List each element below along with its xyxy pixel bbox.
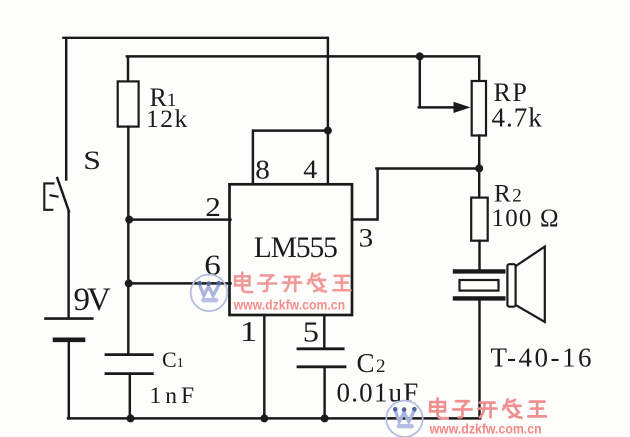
wire node to R2 top bbox=[478, 168, 480, 197]
svg-text:100 Ω: 100 Ω bbox=[492, 205, 560, 232]
node junction RP wiper on rail bbox=[416, 52, 424, 60]
svg-text:3: 3 bbox=[359, 224, 374, 253]
node junction R1/pin2 bbox=[125, 216, 133, 224]
wire R1 bottom down to C1 bbox=[127, 127, 129, 355]
svg-text:C2: C2 bbox=[357, 348, 386, 378]
op-amp U1 LM555 IC body bbox=[230, 184, 353, 315]
capacitor C2 bottom plate bbox=[298, 365, 345, 368]
potentiometer RP wiper wire bbox=[419, 56, 455, 107]
svg-text:S: S bbox=[83, 147, 101, 176]
svg-text:8: 8 bbox=[255, 155, 270, 185]
node junction pin3/RP/R2 bbox=[475, 164, 483, 172]
svg-text:C1: C1 bbox=[162, 347, 184, 372]
potentiometer RP wiper arrow head bbox=[454, 102, 471, 113]
capacitor C1 top plate bbox=[106, 353, 152, 356]
wire pin 6 bbox=[129, 282, 231, 284]
svg-text:1: 1 bbox=[240, 315, 257, 347]
wire RP bottom to node bbox=[478, 136, 480, 169]
potentiometer RP body bbox=[472, 81, 486, 136]
wire battery to bottom rail bbox=[68, 342, 70, 419]
node junction pin4 loop bbox=[324, 127, 332, 135]
wire second rail R1 top to RP top bbox=[127, 56, 479, 81]
capacitor C2 top plate bbox=[298, 347, 343, 350]
node junction pin1 on bottom rail bbox=[260, 414, 268, 422]
svg-text:0.01uF: 0.01uF bbox=[337, 378, 420, 408]
wire top rail from switch to pin4 drop bbox=[64, 38, 328, 180]
svg-text:9V: 9V bbox=[74, 282, 112, 318]
wire pin 2 bbox=[129, 218, 230, 220]
resistor R1 body bbox=[118, 81, 139, 126]
speaker piezo bottom plate bbox=[455, 296, 503, 300]
watermark logo W bottom bbox=[386, 401, 422, 437]
node junction C1 on bottom rail bbox=[127, 414, 135, 422]
watermark text dianzikaifawang middle bbox=[235, 273, 350, 292]
wire pin8-pin4 loop bbox=[253, 131, 328, 185]
wire C1 to bottom rail bbox=[129, 375, 131, 419]
svg-text:www.dzkfw.com.cn: www.dzkfw.com.cn bbox=[429, 422, 542, 437]
svg-text:T-40-16: T-40-16 bbox=[491, 343, 595, 373]
svg-text:2: 2 bbox=[205, 193, 221, 223]
wire pin 5 to C2 bbox=[323, 315, 325, 348]
node junction R1/pin6 bbox=[125, 279, 133, 287]
capacitor C1 bottom plate bbox=[106, 372, 152, 375]
node junction C2 on bottom rail bbox=[321, 414, 329, 422]
watermark logo W middle bbox=[191, 275, 228, 312]
speaker driver rect bbox=[507, 264, 515, 307]
wire pin 1 to bottom rail bbox=[263, 315, 265, 418]
resistor R2 body bbox=[471, 198, 488, 241]
wire pin 3 to RP/R2 node bbox=[352, 169, 479, 220]
battery B1 positive plate bbox=[46, 317, 93, 320]
svg-text:R2: R2 bbox=[494, 181, 522, 208]
battery B1 negative plate bbox=[55, 337, 83, 342]
svg-text:LM555: LM555 bbox=[254, 232, 337, 264]
wire pin4 loop up to top rail bbox=[327, 38, 329, 131]
wire C2 to bottom rail bbox=[323, 368, 325, 418]
svg-text:12k: 12k bbox=[146, 104, 189, 133]
watermark text dianzikaifawang bottom bbox=[430, 398, 546, 418]
svg-text:4.7k: 4.7k bbox=[492, 103, 543, 133]
svg-text:1nF: 1nF bbox=[150, 383, 199, 409]
wire speaker to bottom rail bbox=[478, 301, 480, 419]
svg-text:4: 4 bbox=[303, 155, 317, 184]
wire bottom rail bbox=[68, 417, 480, 419]
svg-text:5: 5 bbox=[303, 316, 319, 348]
wire R2 bottom to speaker bbox=[478, 241, 480, 270]
speaker piezo top plate bbox=[455, 269, 503, 273]
speaker piezo element bbox=[460, 280, 499, 291]
speaker cone bbox=[517, 247, 545, 322]
switch S actuator bracket bbox=[44, 183, 57, 209]
svg-text:www.dzkfw.com.cn: www.dzkfw.com.cn bbox=[233, 297, 345, 312]
switch S blade bbox=[57, 178, 69, 318]
